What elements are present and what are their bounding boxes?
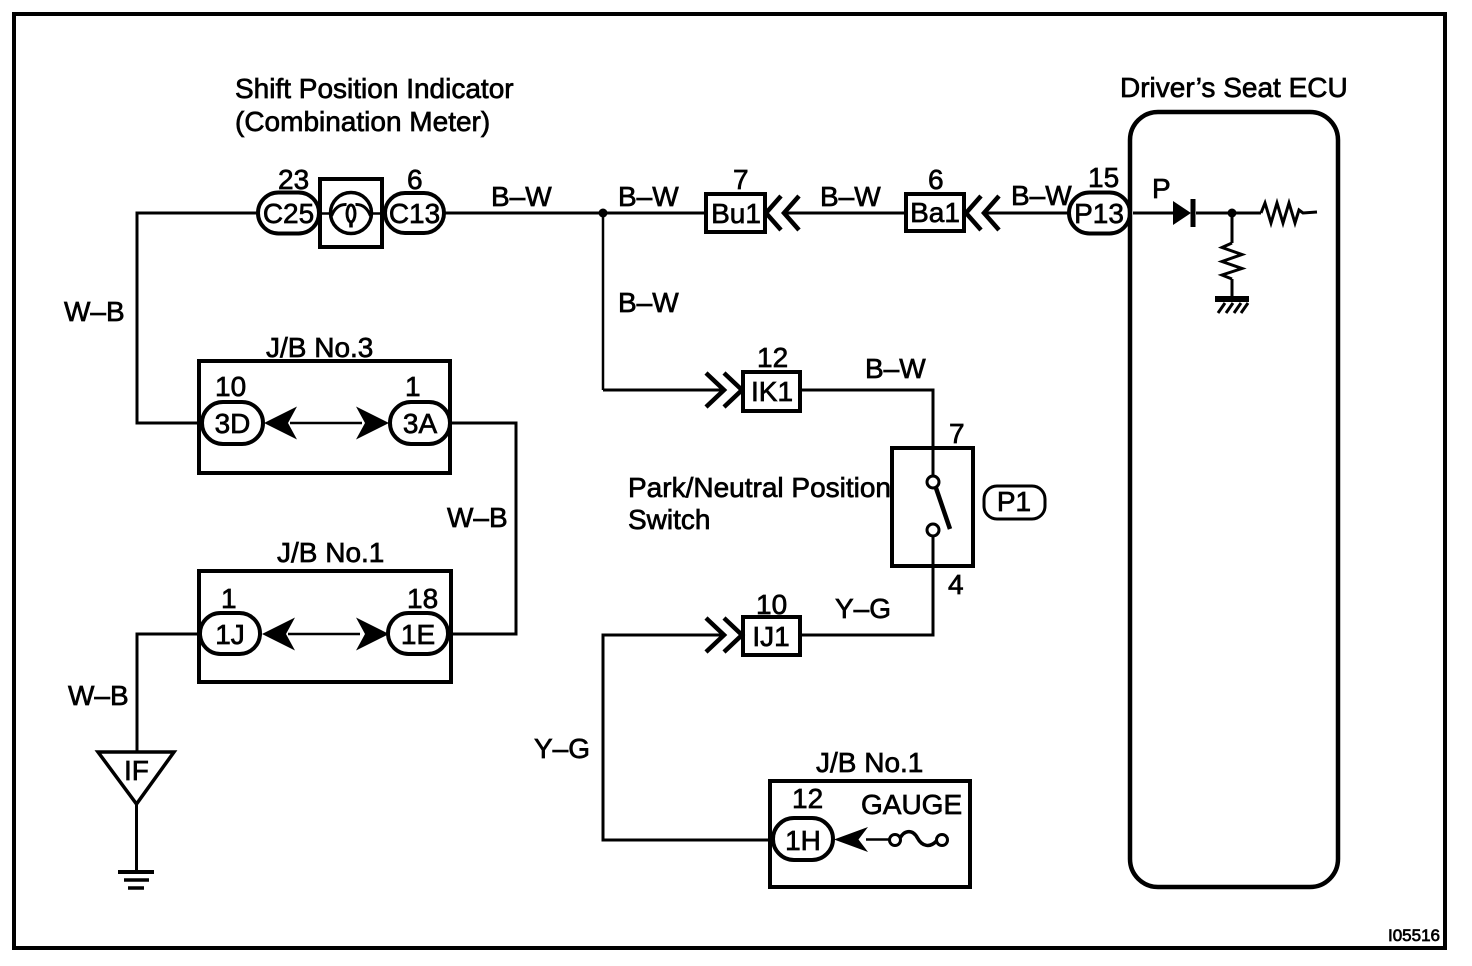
wire W-B from 3A to 1E bbox=[448, 423, 516, 634]
svg-text:7: 7 bbox=[949, 418, 965, 449]
connector label P1 bbox=[984, 486, 1045, 519]
internal arrows in J/B No.3 bbox=[264, 407, 389, 440]
svg-text:Ba1: Ba1 bbox=[910, 197, 960, 228]
svg-text:Shift Position Indicator: Shift Position Indicator bbox=[235, 73, 514, 104]
chassis ground inside ECU bbox=[1215, 296, 1249, 313]
svg-text:6: 6 bbox=[407, 164, 423, 195]
resistor R2 (vertical) bbox=[1222, 243, 1242, 279]
svg-text:B–W: B–W bbox=[618, 287, 679, 318]
switch S1: park/neutral position switch bbox=[892, 418, 973, 600]
svg-text:J/B No.1: J/B No.1 bbox=[816, 747, 923, 778]
male connector arrows at IK1 bbox=[706, 373, 742, 407]
svg-text:P1: P1 bbox=[997, 486, 1031, 517]
wire B-W from junction down to IK1 bbox=[602, 213, 605, 390]
connector Ba1 pin 6 bbox=[906, 164, 964, 231]
node: junction on B-W wire bbox=[599, 209, 608, 218]
connector C25 pin 23 bbox=[258, 164, 319, 234]
svg-text:IK1: IK1 bbox=[751, 376, 793, 407]
svg-text:3A: 3A bbox=[403, 408, 438, 439]
lamp: shift position indicator bulb bbox=[320, 179, 382, 247]
svg-text:Driver’s Seat ECU: Driver’s Seat ECU bbox=[1120, 72, 1348, 103]
fuse GAUGE bbox=[861, 789, 962, 846]
svg-text:B–W: B–W bbox=[1011, 180, 1072, 211]
svg-text:IF: IF bbox=[124, 755, 149, 786]
resistor R1 (horizontal) bbox=[1261, 203, 1317, 223]
svg-text:W–B: W–B bbox=[68, 680, 129, 711]
wire B-W from Ba1 to P13 bbox=[984, 212, 1072, 215]
wire B-W from C13 to Bu1 bbox=[444, 212, 706, 215]
svg-text:P: P bbox=[1152, 173, 1171, 204]
connector Bu1 pin 7 bbox=[706, 164, 765, 232]
male connector arrows at IJ1 bbox=[706, 618, 742, 652]
connector 1J pin 1 bbox=[200, 583, 260, 654]
ECU box: Driver's Seat ECU bbox=[1130, 112, 1338, 887]
svg-text:1J: 1J bbox=[215, 619, 245, 650]
junction block J/B No.1 bbox=[199, 571, 451, 682]
title: Shift Position Indicator (Combination Meter) bbox=[235, 73, 514, 137]
internal arrows in J/B No.1 bbox=[262, 618, 389, 651]
wire B-W from Bu1 to Ba1 bbox=[784, 212, 906, 215]
wire junction down to resistor R2 bbox=[1231, 213, 1234, 243]
connector 3A pin 1 bbox=[390, 371, 450, 444]
wire from IF to ground bbox=[135, 804, 138, 871]
label: Park/Neutral Position Switch bbox=[628, 472, 891, 535]
svg-text:B–W: B–W bbox=[618, 181, 679, 212]
svg-text:4: 4 bbox=[948, 569, 964, 600]
svg-text:Y–G: Y–G bbox=[835, 593, 891, 624]
connector 1H pin 12 bbox=[773, 783, 833, 860]
svg-text:I05516: I05516 bbox=[1388, 926, 1440, 945]
svg-text:10: 10 bbox=[215, 371, 246, 402]
svg-text:12: 12 bbox=[757, 342, 788, 373]
wire from diode to resistor bbox=[1196, 212, 1261, 215]
male connector arrows at Ba1 bbox=[966, 196, 999, 230]
svg-text:Bu1: Bu1 bbox=[711, 198, 761, 229]
diode D1 bbox=[1173, 199, 1196, 227]
connector IK1 pin 12 bbox=[743, 342, 800, 411]
connector IJ1 pin 10 bbox=[743, 589, 800, 655]
svg-text:6: 6 bbox=[928, 164, 944, 195]
connector 3D pin 10 bbox=[202, 371, 263, 444]
connector P13 pin 15 bbox=[1069, 162, 1130, 234]
wire Y-G from IJ1 to J/B No.1 pin 1H bbox=[603, 635, 773, 840]
svg-text:B–W: B–W bbox=[820, 181, 881, 212]
wire Y-G from switch pin 4 to IJ1 bbox=[800, 566, 933, 635]
svg-text:7: 7 bbox=[733, 164, 749, 195]
junction block J/B No.1 (bottom) bbox=[770, 781, 970, 887]
male connector arrows at Bu1 bbox=[766, 196, 799, 230]
junction block J/B No.3 bbox=[199, 361, 450, 473]
svg-text:IJ1: IJ1 bbox=[752, 621, 789, 652]
svg-text:18: 18 bbox=[407, 583, 438, 614]
svg-text:3D: 3D bbox=[215, 408, 251, 439]
svg-text:J/B No.1: J/B No.1 bbox=[277, 537, 384, 568]
svg-text:1: 1 bbox=[221, 583, 237, 614]
svg-text:1H: 1H bbox=[785, 825, 821, 856]
svg-text:GAUGE: GAUGE bbox=[861, 789, 962, 820]
svg-text:W–B: W–B bbox=[447, 502, 508, 533]
svg-text:C25: C25 bbox=[263, 198, 314, 229]
svg-text:C13: C13 bbox=[389, 198, 440, 229]
svg-text:Park/Neutral Position: Park/Neutral Position bbox=[628, 472, 891, 503]
wire W-B from 1J to ground IF bbox=[137, 634, 200, 752]
svg-text:Y–G: Y–G bbox=[534, 733, 590, 764]
svg-text:12: 12 bbox=[792, 783, 823, 814]
svg-text:Switch: Switch bbox=[628, 504, 710, 535]
wire to fuse bbox=[866, 838, 890, 841]
connector 1E pin 18 bbox=[388, 583, 448, 654]
svg-text:P13: P13 bbox=[1074, 198, 1124, 229]
wire inside ECU bbox=[1133, 212, 1173, 215]
svg-text:W–B: W–B bbox=[64, 296, 125, 327]
svg-text:1E: 1E bbox=[401, 619, 435, 650]
svg-text:(Combination Meter): (Combination Meter) bbox=[235, 106, 490, 137]
svg-text:B–W: B–W bbox=[865, 353, 926, 384]
svg-text:J/B No.3: J/B No.3 bbox=[266, 332, 373, 363]
connector C13 pin 6 bbox=[385, 164, 444, 233]
ground connector IF (triangle) bbox=[98, 752, 174, 804]
wire resistor R2 to ground bbox=[1231, 279, 1234, 297]
svg-text:23: 23 bbox=[278, 164, 309, 195]
svg-text:15: 15 bbox=[1088, 162, 1119, 193]
internal arrow in J/B No.1 (bottom) bbox=[834, 827, 868, 852]
wire W-B from C25 to J/B No.3 pin 3D bbox=[137, 213, 258, 423]
svg-text:B–W: B–W bbox=[491, 181, 552, 212]
wire B-W from IK1 to switch pin 7 bbox=[800, 390, 933, 449]
svg-text:1: 1 bbox=[405, 371, 421, 402]
ground symbol bbox=[118, 872, 154, 888]
node: junction inside ECU bbox=[1228, 209, 1237, 218]
